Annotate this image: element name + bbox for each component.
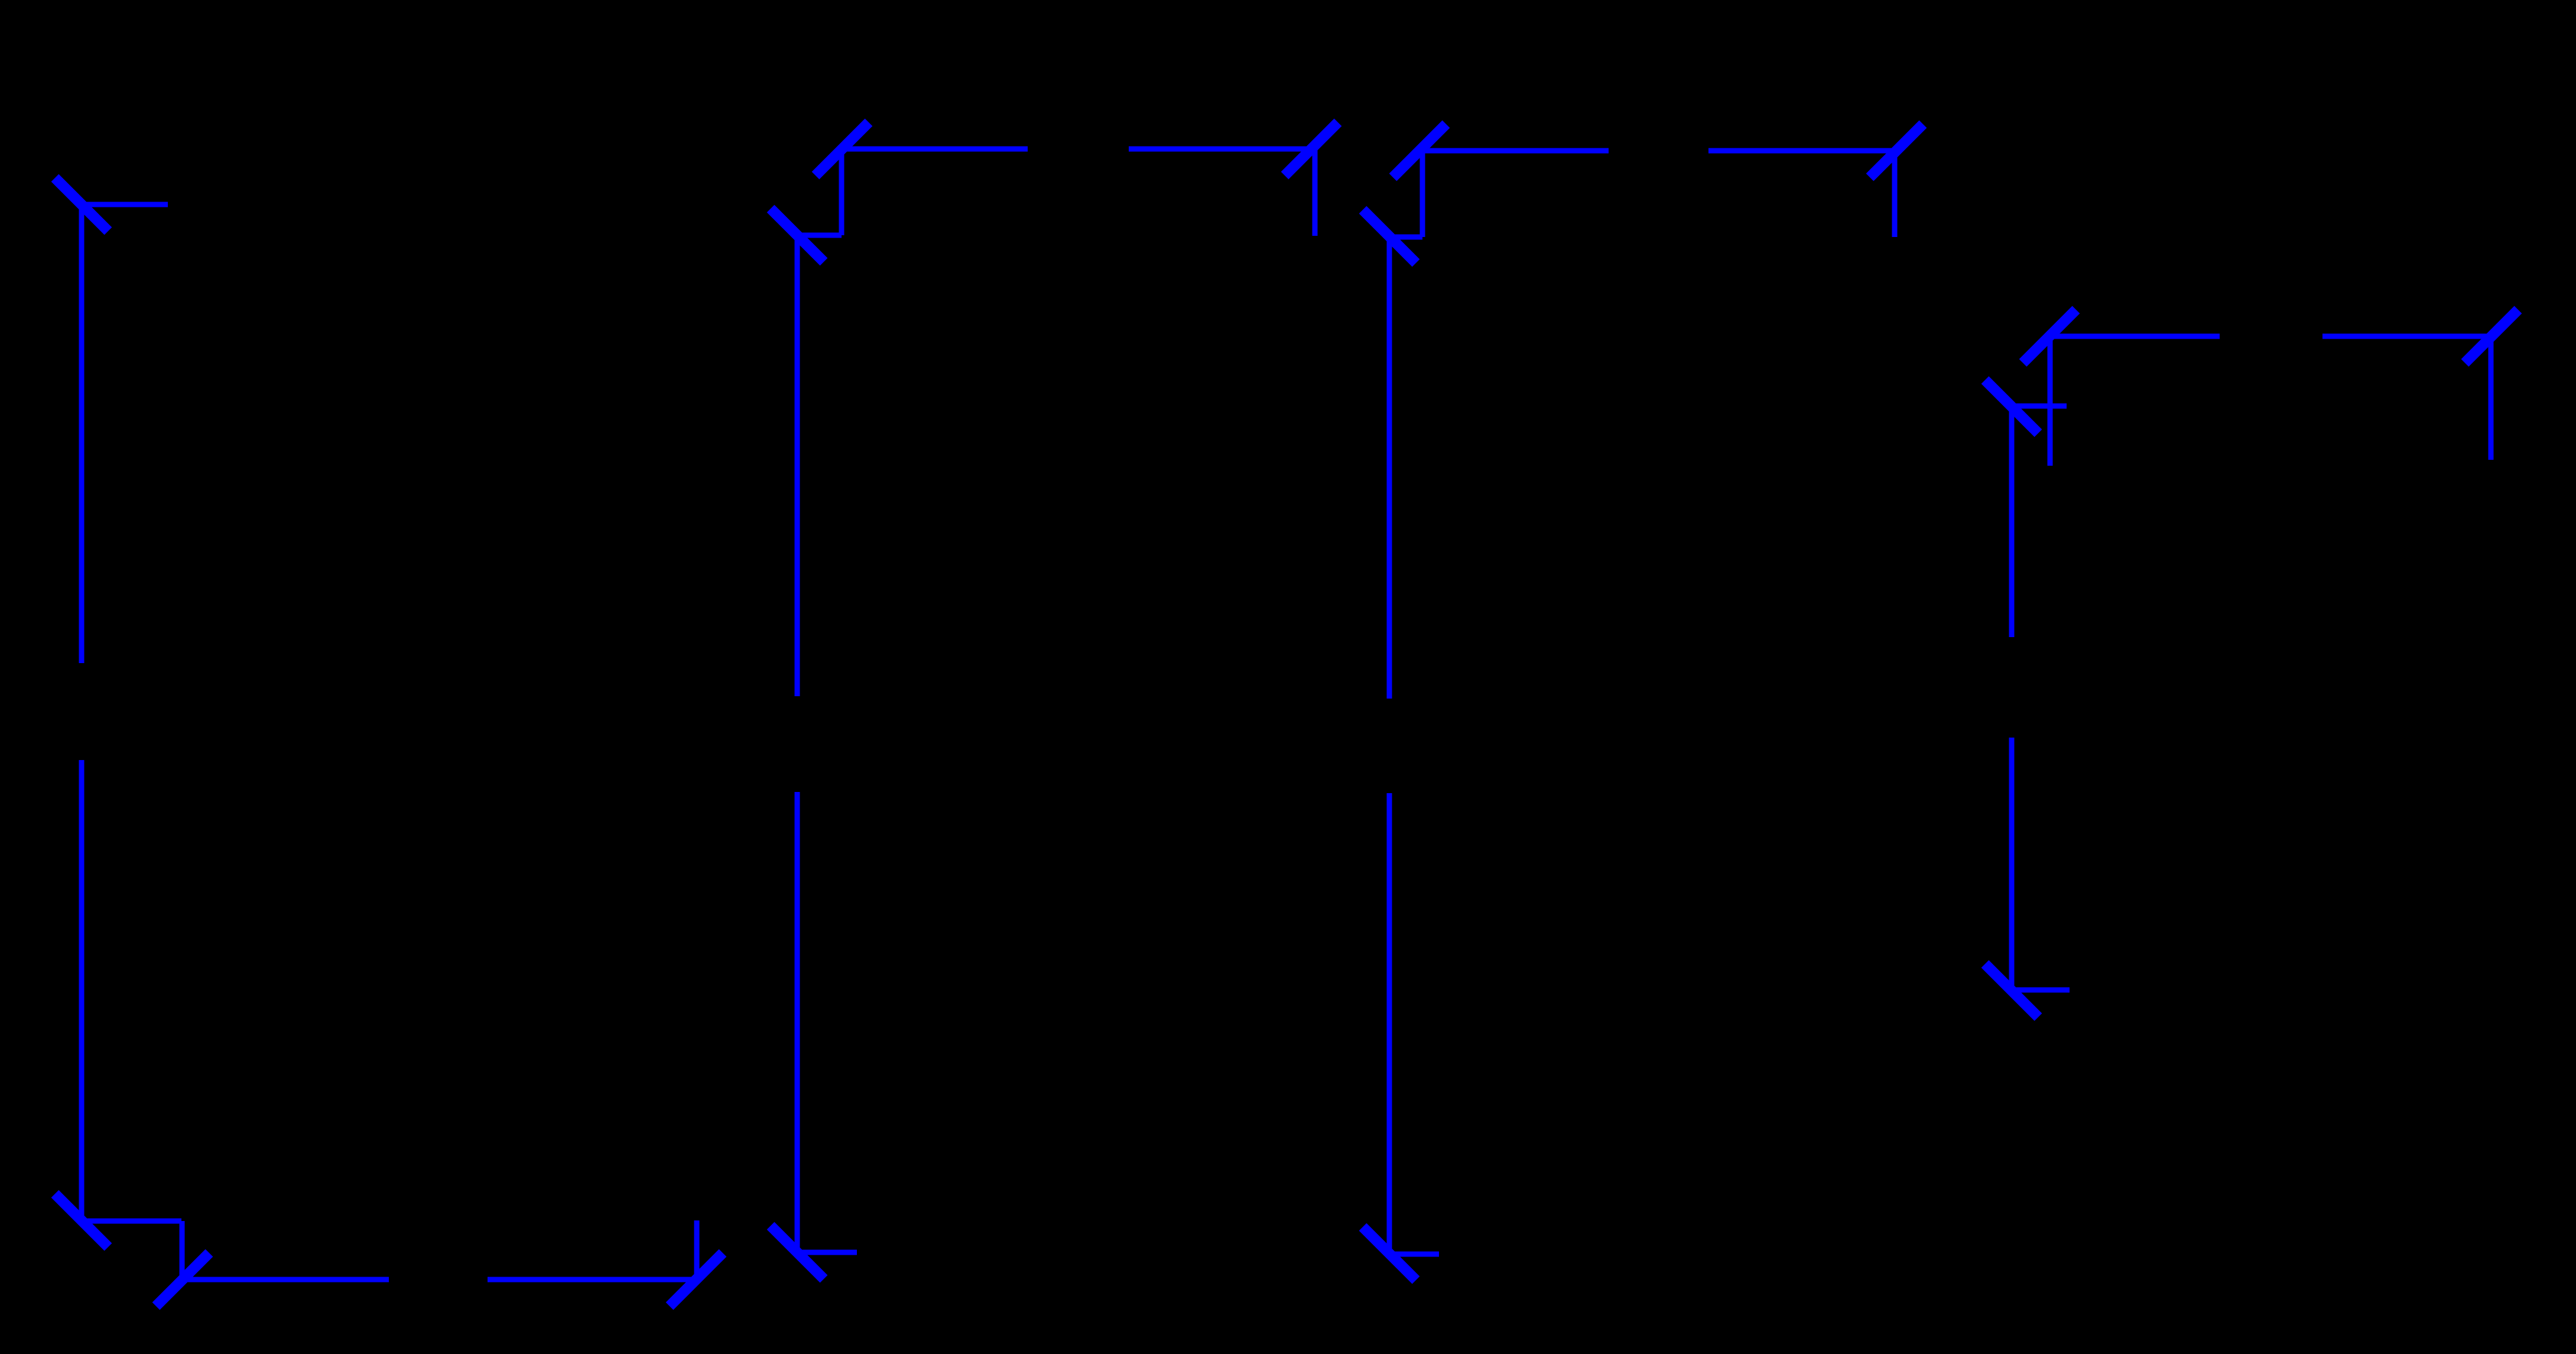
dimension V1 (left vertical dimension) [55, 178, 181, 1247]
dimension line H4 right segment [2322, 334, 2491, 339]
oblique tick V2 bottom [771, 1226, 824, 1279]
oblique tick H4 left [2023, 310, 2076, 363]
oblique tick V2 top [771, 209, 824, 262]
extension line V2 top [797, 233, 842, 238]
oblique tick V1 bottom [55, 1194, 108, 1247]
dimension H1 (bottom horizontal dimension) [156, 1220, 723, 1306]
dimension line H2 left segment [842, 147, 1028, 152]
extension line H2 right [1313, 149, 1318, 236]
dimension V4 (right vertical dimension) [1985, 380, 2070, 1017]
oblique tick H3 right [1870, 124, 1923, 177]
extension line H2 left [839, 149, 844, 235]
extension line V4 bottom [2012, 988, 2070, 993]
extension line V1 bottom [82, 1219, 181, 1224]
oblique tick V4 top [1985, 380, 2038, 433]
dimension line H4 left segment [2049, 334, 2220, 339]
extension line H4 right [2489, 336, 2494, 460]
extension line V4 top [2012, 404, 2067, 409]
dimension V3 (third vertical dimension) [1363, 210, 1439, 1280]
dimension H3 (upper horizontal dimension, second span) [1393, 124, 1923, 237]
oblique tick H2 left [816, 122, 869, 176]
dimension line H2 right segment [1129, 147, 1311, 152]
dimension line V4 lower segment [2009, 738, 2015, 991]
extension line H1 left [180, 1221, 185, 1280]
dimension line H3 right segment [1708, 148, 1896, 154]
oblique tick H2 right [1285, 122, 1338, 176]
extension line V3 bottom [1389, 1252, 1439, 1257]
dimension line V1 upper segment [79, 204, 85, 663]
dimension line H3 left segment [1419, 148, 1609, 154]
oblique tick V3 bottom [1363, 1227, 1416, 1280]
dimension line V2 upper segment [795, 235, 800, 696]
dimension line V4 upper segment [2009, 407, 2015, 637]
oblique tick H1 right [670, 1253, 723, 1306]
dimension line H1 right segment [488, 1277, 696, 1282]
dimension line H1 left segment [183, 1277, 389, 1282]
extension line H3 right [1892, 151, 1898, 237]
dimension V2 (second vertical dimension) [771, 209, 857, 1279]
extension line H1 right [694, 1220, 700, 1280]
dimension line V2 lower segment [795, 792, 800, 1252]
dimension line V1 lower segment [79, 760, 85, 1220]
extension line H3 left [1420, 151, 1425, 237]
extension line V3 top [1389, 235, 1422, 240]
extension line V2 bottom [797, 1250, 857, 1255]
oblique tick H1 left [156, 1253, 209, 1306]
extension line H4 left [2048, 336, 2053, 466]
oblique tick H4 right [2465, 310, 2518, 363]
oblique tick V1 top [55, 178, 108, 231]
dimension H2 (upper horizontal dimension, first span) [816, 122, 1338, 236]
extension line V1 top [82, 202, 168, 207]
dimension H4 (right horizontal dimension) [2023, 310, 2518, 466]
oblique tick V3 top [1363, 210, 1416, 263]
oblique tick V4 bottom [1985, 964, 2038, 1017]
dimension line V3 lower segment [1387, 793, 1392, 1254]
dimension line V3 upper segment [1387, 236, 1392, 699]
oblique tick H3 left [1393, 124, 1446, 177]
